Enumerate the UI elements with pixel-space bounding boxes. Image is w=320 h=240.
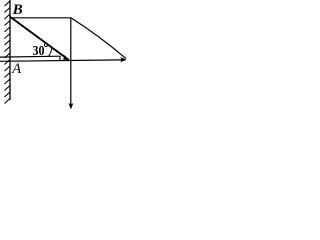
top horizontal line from B: [10, 17, 71, 19]
svg-text:30: 30: [33, 43, 45, 58]
svg-text:A: A: [11, 61, 21, 77]
arrowhead of ray from B: [62, 54, 70, 60]
ground horizontal line through A: [0, 60, 122, 61]
vertical line from corner: [70, 18, 72, 106]
ray from B: [10, 17, 68, 60]
diagonal D1 top right: [71, 18, 126, 59]
ledge top line: [0, 55, 60, 58]
wall hatching: [5, 1, 11, 104]
ledge right edge: [59, 56, 61, 61]
30 degree arc: [48, 48, 52, 57]
svg-text:B: B: [12, 2, 23, 18]
right arrowhead of ground line: [120, 57, 127, 62]
degree symbol: [44, 43, 47, 46]
down arrowhead of vertical line: [69, 103, 74, 109]
wall: [9, 0, 11, 100]
